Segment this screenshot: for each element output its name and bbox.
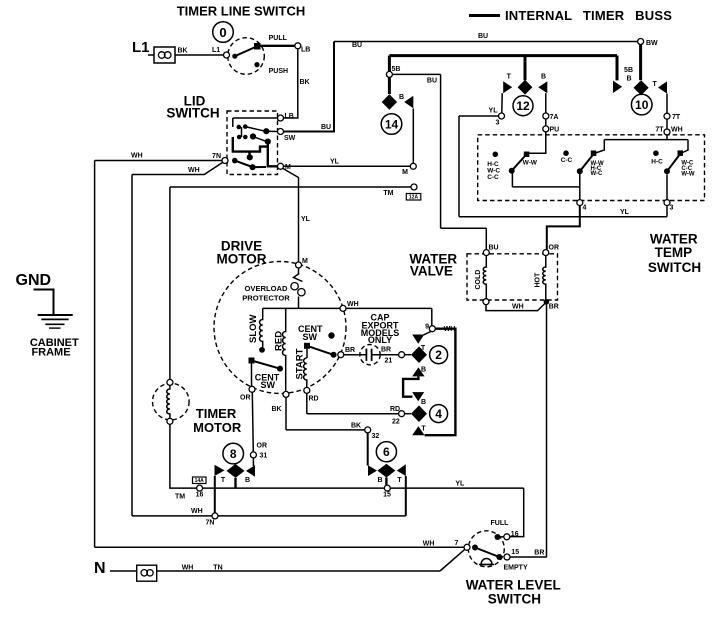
svg-text:4: 4 [435, 407, 442, 421]
svg-text:OR: OR [257, 443, 268, 450]
svg-text:WH: WH [423, 540, 435, 547]
svg-text:OR: OR [240, 395, 251, 402]
svg-text:14: 14 [385, 118, 399, 132]
svg-text:MOTOR: MOTOR [217, 252, 267, 267]
svg-text:VALVE: VALVE [410, 264, 453, 279]
svg-text:HOT: HOT [535, 272, 542, 288]
svg-text:OVERLOAD: OVERLOAD [244, 284, 288, 293]
svg-text:BU: BU [352, 42, 362, 49]
svg-text:BK: BK [351, 423, 361, 430]
svg-text:YL: YL [455, 481, 465, 488]
svg-text:5B: 5B [392, 66, 401, 73]
svg-text:SLOW: SLOW [248, 314, 259, 343]
svg-text:BK: BK [178, 48, 188, 55]
svg-text:YL: YL [489, 108, 499, 115]
svg-text:T: T [653, 81, 658, 88]
svg-text:YL: YL [620, 209, 630, 216]
svg-text:W-C: W-C [591, 171, 604, 177]
svg-text:BK: BK [272, 406, 282, 413]
svg-text:WH: WH [182, 565, 194, 572]
svg-text:TN: TN [213, 565, 222, 572]
svg-text:PULL: PULL [269, 35, 288, 42]
svg-text:SW: SW [261, 380, 276, 390]
svg-text:ONLY: ONLY [368, 335, 392, 345]
svg-text:9: 9 [425, 323, 429, 330]
svg-text:7N: 7N [212, 153, 221, 160]
svg-text:WH: WH [191, 508, 203, 515]
svg-text:T: T [421, 426, 426, 433]
svg-text:YL: YL [330, 159, 340, 166]
svg-text:T: T [397, 477, 402, 484]
svg-text:SW: SW [303, 332, 318, 342]
svg-text:BU: BU [321, 124, 331, 131]
svg-text:12: 12 [516, 99, 530, 113]
svg-text:WH: WH [671, 127, 683, 134]
svg-text:6: 6 [383, 445, 390, 459]
svg-text:PUSH: PUSH [269, 68, 288, 75]
svg-text:N: N [94, 560, 106, 577]
svg-text:TEMP: TEMP [655, 245, 693, 260]
svg-text:8: 8 [230, 447, 237, 461]
svg-text:T: T [507, 74, 512, 81]
svg-text:BU: BU [478, 33, 488, 40]
svg-text:WH: WH [347, 301, 359, 308]
svg-text:B: B [626, 76, 631, 83]
svg-text:SWITCH: SWITCH [166, 106, 219, 121]
svg-text:YL: YL [301, 216, 311, 223]
svg-text:3: 3 [670, 205, 674, 212]
svg-text:7N: 7N [206, 520, 215, 527]
svg-text:7A: 7A [550, 114, 559, 121]
svg-text:16: 16 [196, 492, 204, 499]
svg-text:FRAME: FRAME [31, 347, 70, 359]
svg-text:BR: BR [534, 550, 544, 557]
svg-text:32: 32 [372, 433, 380, 440]
svg-text:C-C: C-C [487, 174, 499, 181]
svg-text:COLD: COLD [475, 270, 482, 290]
svg-text:L1: L1 [212, 47, 220, 54]
svg-text:M: M [402, 169, 408, 176]
svg-text:WH: WH [512, 304, 524, 311]
svg-text:12A: 12A [409, 195, 419, 201]
svg-text:2: 2 [435, 348, 442, 362]
svg-text:10: 10 [635, 98, 649, 112]
svg-text:PROTECTOR: PROTECTOR [242, 294, 290, 303]
svg-text:15: 15 [383, 492, 391, 499]
svg-text:B: B [541, 74, 546, 81]
svg-text:14A: 14A [195, 478, 205, 484]
svg-text:GND: GND [16, 272, 52, 289]
svg-text:EMPTY: EMPTY [504, 565, 528, 572]
svg-text:C-C: C-C [561, 157, 573, 164]
svg-text:SWITCH: SWITCH [488, 592, 541, 607]
svg-text:RED: RED [274, 331, 285, 351]
svg-text:15: 15 [511, 549, 519, 556]
svg-text:B: B [399, 94, 404, 101]
svg-text:T: T [421, 345, 426, 352]
svg-text:5B: 5B [624, 67, 633, 74]
svg-text:WH: WH [131, 153, 143, 160]
svg-text:BR: BR [345, 347, 355, 354]
svg-text:B: B [421, 399, 426, 406]
svg-text:SWITCH: SWITCH [648, 260, 701, 275]
svg-text:BR: BR [381, 347, 391, 354]
svg-text:0: 0 [219, 25, 226, 40]
svg-text:TIMER: TIMER [196, 406, 237, 421]
svg-text:TM: TM [383, 190, 393, 197]
svg-text:BR: BR [549, 304, 559, 311]
svg-text:TM: TM [175, 494, 185, 501]
svg-text:B: B [245, 477, 250, 484]
svg-text:MOTOR: MOTOR [193, 420, 242, 435]
svg-text:22: 22 [392, 418, 400, 425]
svg-text:WH: WH [188, 167, 200, 174]
svg-text:INTERNAL TIMER BUSS: INTERNAL TIMER BUSS [505, 8, 672, 23]
svg-text:WH: WH [444, 326, 456, 333]
svg-text:B: B [377, 477, 382, 484]
svg-text:FULL: FULL [491, 520, 510, 527]
svg-text:OR: OR [549, 245, 560, 252]
svg-text:LB: LB [285, 113, 294, 120]
svg-text:T: T [221, 477, 226, 484]
svg-text:LB: LB [301, 47, 310, 54]
svg-text:21: 21 [385, 358, 393, 365]
svg-text:BU: BU [427, 77, 437, 84]
svg-text:7T: 7T [655, 127, 664, 134]
svg-text:7T: 7T [672, 114, 681, 121]
svg-text:7: 7 [455, 540, 459, 547]
svg-text:BU: BU [489, 245, 499, 252]
svg-text:PU: PU [550, 127, 560, 134]
svg-text:4: 4 [583, 205, 587, 212]
svg-text:BW: BW [646, 40, 658, 47]
svg-text:START: START [295, 348, 306, 379]
svg-text:31: 31 [260, 453, 268, 460]
svg-text:SW: SW [284, 135, 296, 142]
svg-text:RD: RD [309, 396, 319, 403]
svg-text:W-W: W-W [523, 160, 538, 167]
svg-text:TIMER LINE SWITCH: TIMER LINE SWITCH [177, 4, 306, 19]
svg-text:W-W: W-W [681, 172, 695, 178]
svg-text:WATER LEVEL: WATER LEVEL [466, 578, 561, 593]
svg-text:3: 3 [496, 120, 500, 127]
svg-text:L1: L1 [132, 39, 150, 56]
svg-text:M: M [302, 258, 308, 265]
svg-text:BK: BK [300, 79, 310, 86]
svg-text:16: 16 [511, 531, 519, 538]
svg-text:H-C: H-C [651, 158, 663, 165]
